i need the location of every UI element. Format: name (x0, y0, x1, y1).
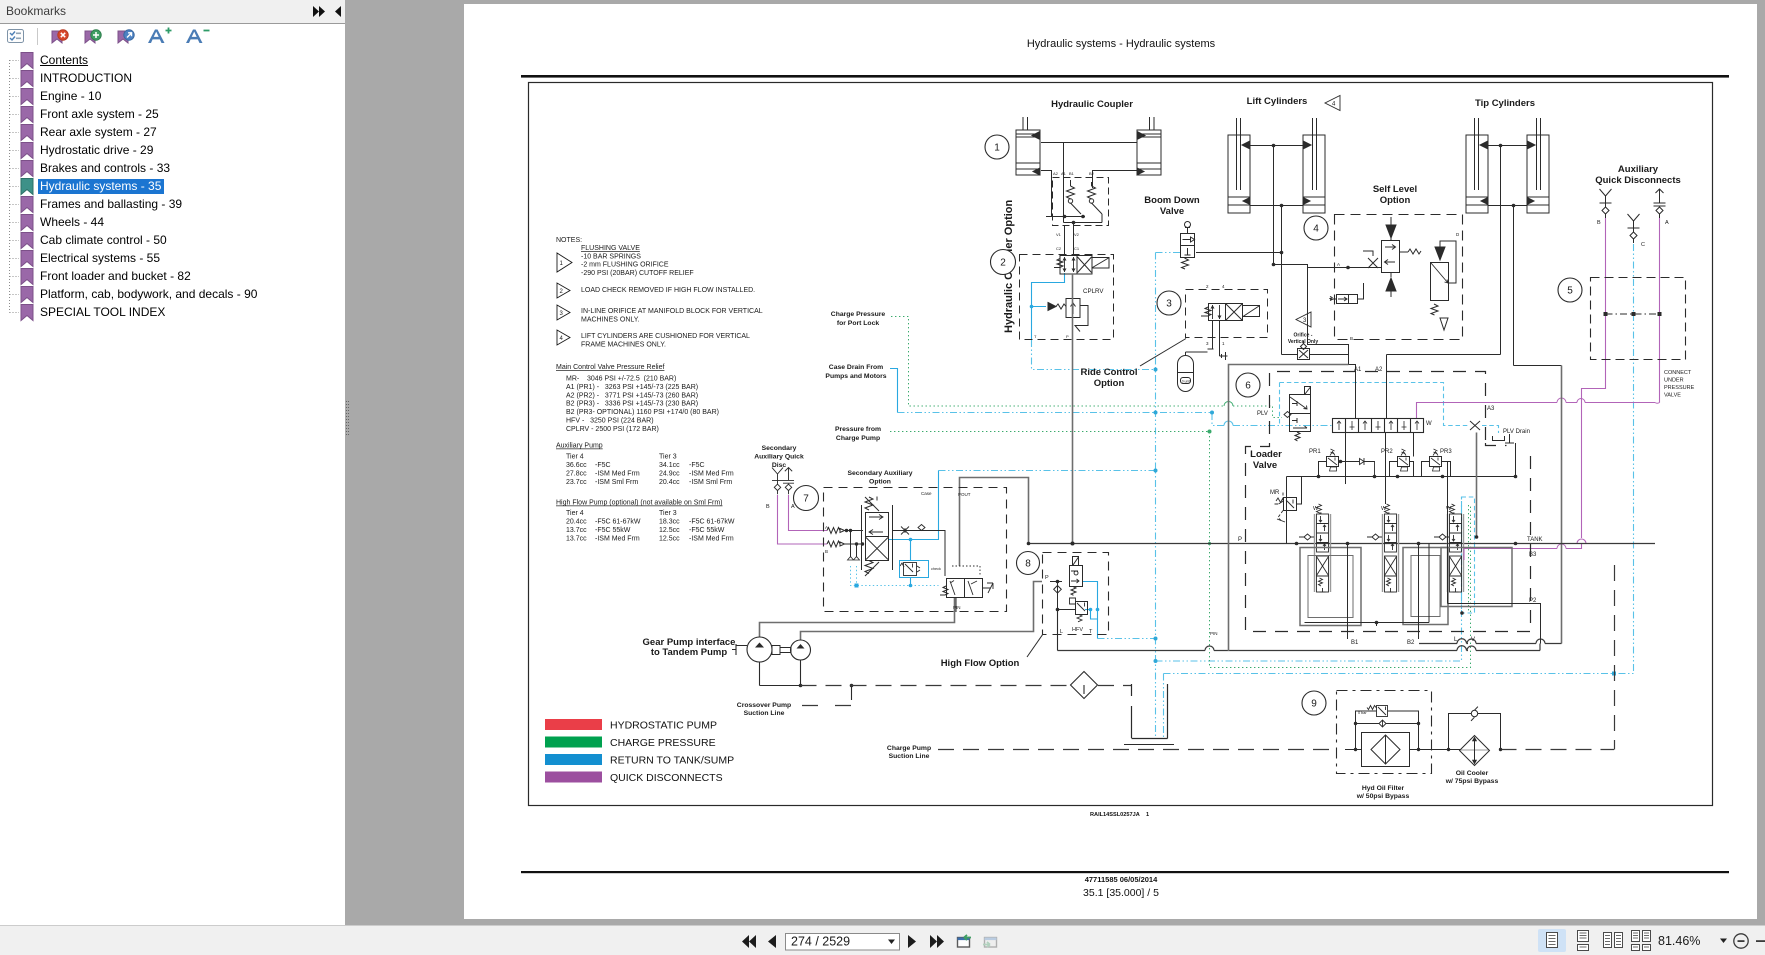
svg-text:C: C (1641, 242, 1645, 248)
aux QD symbol A (1654, 189, 1666, 218)
wire: coupler rails (1046, 217, 1102, 256)
svg-text:A1: A1 (1061, 171, 1067, 176)
self level valve right (1431, 241, 1457, 330)
svg-text:V1: V1 (1056, 232, 1062, 237)
svg-text:-ISM Med Frm: -ISM Med Frm (595, 470, 640, 477)
wire: spool3 pilot green (1468, 505, 1470, 613)
bookmarks panel (0, 0, 345, 925)
lift cylinder right (1303, 118, 1325, 213)
svg-text:Loader: Loader (1250, 449, 1282, 460)
svg-text:MR- 3046 PSI +/-72.5 (210: MR- 3046 PSI +/-72.5 (210 BAR) (566, 376, 676, 383)
svg-text:-F5C: -F5C (689, 462, 705, 469)
svg-text:Charge Pump: Charge Pump (887, 745, 931, 752)
svg-text:Suction Line: Suction Line (889, 753, 930, 760)
svg-text:Case Drain From: Case Drain From (829, 364, 883, 371)
orifice X on PLV drain (1470, 421, 1480, 430)
svg-text:-ISM Sml Frm: -ISM Sml Frm (595, 479, 638, 486)
wire: ride-control pilot dash-dot vertical (1155, 253, 1157, 740)
svg-text:Valve: Valve (1253, 460, 1277, 471)
svg-text:HYDROSTATIC PUMP: HYDROSTATIC PUMP (610, 720, 717, 732)
svg-text:P: P (1045, 575, 1049, 581)
note marker: orifice (3) (1296, 312, 1311, 327)
svg-text:B1: B1 (1069, 171, 1075, 176)
svg-text:w/ 75psi Bypass: w/ 75psi Bypass (1445, 778, 1499, 785)
tank symbol at PLV drain (1493, 434, 1515, 443)
legend swatch: hydrostatic pump (545, 719, 602, 730)
svg-text:VALVE: VALVE (1664, 393, 1681, 399)
svg-text:CPLRV: CPLRV (1083, 288, 1104, 295)
coupler solenoid valve (1054, 256, 1109, 275)
orifice X in self level (1363, 251, 1378, 268)
bottom toolbar (0, 925, 1765, 955)
svg-text:4: 4 (1313, 224, 1319, 235)
loader valve outer body (1229, 365, 1349, 652)
goto bookmark icon (118, 31, 128, 43)
PLV valve (1284, 387, 1311, 442)
check valve to PR1 (1343, 458, 1375, 477)
svg-text:B1: B1 (1351, 640, 1359, 646)
hyd oil filter body (1345, 733, 1419, 767)
outlet with orifice and check (893, 525, 946, 577)
wire: spool3 pilot dashed box (1462, 497, 1475, 613)
svg-text:POUT: POUT (958, 492, 971, 497)
svg-text:Option: Option (1380, 195, 1411, 206)
svg-text:CONNECT: CONNECT (1664, 370, 1692, 376)
svg-text:HFV: HFV (1072, 627, 1083, 633)
tank bracket (1124, 684, 1174, 745)
pointer line to ride control text (1140, 339, 1186, 367)
svg-text:3: 3 (1206, 341, 1209, 346)
svg-text:1: 1 (1146, 812, 1149, 818)
purple quick-disconnect lines (778, 218, 1660, 549)
case relief with blue frame (900, 563, 920, 576)
svg-text:Quick Disconnects: Quick Disconnects (1595, 175, 1681, 186)
svg-text:PR2: PR2 (1381, 449, 1393, 455)
wire: coupler check springs to rails (1071, 203, 1103, 223)
svg-text:-F5C 61-67kW: -F5C 61-67kW (595, 519, 641, 526)
svg-text:1: 1 (994, 143, 1000, 154)
svg-text:274 / 2529: 274 / 2529 (791, 935, 850, 949)
legend swatch: charge pressure (545, 737, 602, 748)
wire: lift cylinders head line (1250, 146, 1303, 265)
svg-text:RAIL14SSL0257JA: RAIL14SSL0257JA (1090, 812, 1140, 818)
pointer to high flow box (1027, 634, 1043, 657)
wire: pump1 to secondary aux PIN (760, 598, 955, 637)
relief valve PR3 (1422, 449, 1451, 477)
high flow solenoid valve (1070, 557, 1083, 596)
spool W labels (1313, 506, 1452, 512)
svg-text:PIN: PIN (1210, 631, 1218, 636)
svg-text:CPLRV - 2500 PSI (172 BAR): CPLRV - 2500 PSI (172 BAR) (566, 426, 659, 433)
svg-text:Auxiliary Pump: Auxiliary Pump (556, 443, 603, 450)
svg-text:0 bar: 0 bar (1358, 711, 1367, 715)
solid return (blue) segments (889, 273, 1098, 639)
wire: boom down valve pilot (1156, 252, 1181, 254)
svg-text:4: 4 (1222, 284, 1225, 289)
svg-text:QUICK DISCONNECTS: QUICK DISCONNECTS (610, 772, 723, 784)
A- icon (186, 30, 203, 44)
svg-text:Lift Cylinders: Lift Cylinders (1247, 96, 1308, 107)
coupler cylinder left (1016, 117, 1040, 175)
box 2: hydraulic coupler option enclosure (1020, 255, 1114, 340)
wire: secondary aux case (889, 471, 939, 540)
svg-text:Tip Cylinders: Tip Cylinders (1475, 98, 1535, 109)
svg-text:B2 (PR3- OPTIONAL) 1160 PSI +1: B2 (PR3- OPTIONAL) 1160 PSI +174/0 (80 B… (566, 409, 719, 416)
svg-text:FRAME MACHINES ONLY.: FRAME MACHINES ONLY. (581, 341, 666, 348)
schematic border frame (529, 83, 1713, 806)
svg-text:Auxiliary Quick: Auxiliary Quick (754, 454, 804, 461)
svg-text:LOAD CHECK REMOVED IF HIGH FLO: LOAD CHECK REMOVED IF HIGH FLOW INSTALLE… (581, 287, 755, 294)
svg-text:0 unit: 0 unit (1182, 380, 1190, 384)
box 5 dashed enclosure (1591, 278, 1686, 360)
variable displacement pump/motor stack (862, 497, 893, 577)
svg-text:RETURN TO TANK/SUMP: RETURN TO TANK/SUMP (610, 755, 734, 767)
svg-text:Orifice -: Orifice - (1294, 333, 1313, 339)
A+ icon (148, 30, 165, 44)
wire: lift to self level A (1274, 265, 1382, 419)
wire: case line dash-dot (939, 470, 1156, 472)
svg-text:T: T (1089, 629, 1093, 635)
svg-text:Tier 4: Tier 4 (566, 510, 584, 517)
wire: PLV pilot dashed (1280, 383, 1499, 434)
svg-text:5: 5 (1567, 286, 1573, 297)
svg-text:Suction Line: Suction Line (744, 710, 785, 717)
svg-text:B2: B2 (1089, 171, 1095, 176)
port restrictors (zigzag) (827, 528, 863, 561)
wire: P rail (1029, 543, 1656, 545)
svg-text:36.6cc: 36.6cc (566, 462, 587, 469)
svg-text:6: 6 (1245, 381, 1251, 392)
wire: charge pressure for port lock (891, 317, 1282, 418)
svg-text:Self Level: Self Level (1373, 184, 1417, 195)
wire: high flow valve tank (1082, 582, 1098, 639)
connect-under-pressure link (1606, 313, 1660, 315)
svg-text:Disc: Disc (772, 462, 787, 469)
svg-text:PIN: PIN (953, 605, 961, 610)
wire: secondary QD B (778, 495, 828, 544)
wire: boom valve to lift line (1196, 252, 1282, 254)
svg-text:-F5C 61-67kW: -F5C 61-67kW (689, 519, 735, 526)
wire: L drain to tank rail (1057, 610, 1059, 651)
swash control valve (940, 566, 993, 612)
svg-text:B: B (1597, 220, 1601, 226)
svg-text:24.9cc: 24.9cc (659, 470, 680, 477)
wire: tank drop legs (1163, 674, 1165, 739)
svg-text:34.1cc: 34.1cc (659, 462, 680, 469)
svg-text:C2: C2 (1056, 246, 1062, 251)
svg-text:PLV Drain: PLV Drain (1503, 429, 1530, 435)
svg-text:PR3: PR3 (1440, 449, 1452, 455)
svg-text:Option: Option (869, 479, 891, 486)
wire: case drain solid stub (890, 369, 898, 413)
svg-text:18.3cc: 18.3cc (659, 519, 680, 526)
wire: manifold feeds down to spools (1346, 433, 1477, 538)
footer rule (521, 871, 1729, 873)
filter bypass relief (1358, 706, 1388, 717)
svg-text:PR1: PR1 (1309, 449, 1321, 455)
svg-text:Charge Pump: Charge Pump (836, 435, 880, 442)
wire: case drain dash-dot (898, 413, 1333, 426)
svg-text:12.5cc: 12.5cc (659, 535, 680, 542)
wire: tank return upper (1419, 643, 1562, 645)
secondary QD symbol B (772, 468, 783, 495)
svg-text:A: A (791, 504, 795, 510)
svg-text:UNDER: UNDER (1664, 378, 1684, 384)
accumulator (1178, 356, 1194, 392)
green dotted charge-pressure lines (890, 317, 1471, 668)
wire: QD B to B3 (1582, 218, 1606, 549)
svg-text:20.4cc: 20.4cc (659, 479, 680, 486)
box 3: ride control enclosure (1186, 290, 1268, 338)
in-line orifice component (1298, 342, 1310, 360)
wire: accumulator link (1186, 352, 1208, 356)
svg-text:L: L (1060, 629, 1063, 635)
main gray canvas (345, 0, 1765, 925)
cyan dotted pilot lines, secondary aux (851, 566, 939, 586)
oil cooler with bypass (1449, 707, 1501, 766)
svg-text:20.4cc: 20.4cc (566, 519, 587, 526)
svg-text:Secondary: Secondary (762, 445, 797, 452)
numbered balloons (794, 135, 1583, 715)
wire: in-line orifice run (1282, 354, 1349, 356)
svg-text:8: 8 (1025, 559, 1031, 570)
wire: tip cylinders rod line (1488, 206, 1562, 366)
svg-text:2: 2 (1000, 258, 1006, 269)
wire: QD A to A3 (1417, 218, 1660, 418)
MR relief valve (1275, 477, 1302, 523)
svg-text:Case: Case (921, 491, 932, 496)
HFV relief (1058, 598, 1088, 622)
box 4: self level enclosure (1335, 215, 1463, 340)
svg-text:1: 1 (1222, 341, 1225, 346)
white PDF page (464, 4, 1757, 919)
svg-text:A: A (1337, 262, 1340, 267)
header rule (521, 75, 1729, 78)
svg-text:Option: Option (1094, 378, 1125, 389)
svg-text:47711585 06/05/2014: 47711585 06/05/2014 (1085, 875, 1158, 884)
coupler option spring box (dashed) (1053, 178, 1109, 226)
wire: tip cylinders head line (1387, 146, 1528, 419)
svg-text:T: T (1034, 334, 1037, 339)
svg-text:A1 (PR1) - 3263 PSI +145/-73: A1 (PR1) - 3263 PSI +145/-73 (225 BAR) (566, 384, 698, 391)
self level valve left (1382, 217, 1400, 297)
svg-text:Boom Down: Boom Down (1144, 195, 1200, 206)
svg-text:23.7cc: 23.7cc (566, 479, 587, 486)
tip cylinder left (1466, 118, 1488, 213)
svg-text:P: P (1238, 537, 1242, 543)
wire: loader valve right feed (1561, 366, 1563, 644)
svg-text:3: 3 (1303, 318, 1307, 324)
svg-text:-F5C 55kW: -F5C 55kW (689, 527, 725, 534)
svg-text:2: 2 (1206, 284, 1209, 289)
svg-text:12.5cc: 12.5cc (659, 527, 680, 534)
wire: pump2 to high flow P (801, 582, 1043, 641)
loader spool 2 (1383, 504, 1399, 592)
wire: bypass loop (1356, 711, 1419, 750)
svg-text:CHARGE PRESSURE: CHARGE PRESSURE (610, 737, 716, 749)
delete bookmark icon (52, 31, 62, 43)
svg-text:3: 3 (1166, 299, 1172, 310)
wire: CPLRV spring drain (1032, 273, 1065, 340)
wire: tank return lower (1058, 644, 1541, 651)
wire: secondary QD A (789, 495, 828, 531)
svg-text:FLUSHING VALVE: FLUSHING VALVE (581, 245, 640, 252)
svg-text:MR: MR (1270, 490, 1280, 496)
secondary QD symbol A (783, 468, 794, 495)
svg-text:-ISM Med Frm: -ISM Med Frm (689, 535, 734, 542)
svg-text:D: D (1456, 232, 1460, 237)
svg-text:Hydraulic systems - Hydraulic: Hydraulic systems - Hydraulic systems (1027, 38, 1216, 50)
svg-text:-F5C 55kW: -F5C 55kW (595, 527, 631, 534)
svg-text:27.8cc: 27.8cc (566, 470, 587, 477)
svg-text:13.7cc: 13.7cc (566, 527, 587, 534)
svg-text:TANK: TANK (1527, 537, 1543, 543)
svg-text:81.46%: 81.46% (1658, 934, 1700, 948)
svg-text:-290 PSI (20BAR) CUTOFF RELIEF: -290 PSI (20BAR) CUTOFF RELIEF (581, 270, 694, 277)
svg-text:-2 mm FLUSHING ORIFICE: -2 mm FLUSHING ORIFICE (581, 262, 669, 269)
aux QD symbol C (1628, 214, 1640, 243)
purple B3 into spool3 (1463, 549, 1465, 561)
cyan junction dots (1154, 368, 1617, 676)
legend swatch: return to tank/sump (545, 754, 602, 765)
PR relief valves row (1319, 449, 1451, 477)
svg-text:W: W (1426, 421, 1432, 427)
new bookmark icon (85, 31, 95, 43)
svg-text:Pumps and Motors: Pumps and Motors (825, 373, 886, 380)
boom down valve (1181, 222, 1195, 270)
wire: valve work ports down (1208, 321, 1228, 361)
wire: return rail to L port (1156, 497, 1462, 661)
note marker triangle 1 (557, 253, 572, 345)
coupler check valve springs (1067, 180, 1096, 203)
svg-text:Crossover Pump: Crossover Pump (737, 702, 791, 709)
svg-text:7: 7 (803, 494, 809, 505)
svg-text:High Flow Option: High Flow Option (941, 658, 1020, 669)
wire: POUT riser (960, 478, 1029, 567)
svg-text:check: check (931, 567, 941, 571)
svg-text:4: 4 (1332, 102, 1336, 108)
lift cylinder left (1228, 118, 1250, 213)
tip cylinder right (1527, 118, 1549, 213)
svg-text:Ride Control: Ride Control (1081, 367, 1138, 378)
svg-text:w/ 50psi Bypass: w/ 50psi Bypass (1356, 793, 1410, 800)
svg-text:HFV - 3250 PSI (224 BAR): HFV - 3250 PSI (224 BAR) (566, 418, 654, 425)
svg-text:PRESSURE: PRESSURE (1664, 385, 1695, 391)
pilot valve small, self level (1330, 283, 1364, 304)
svg-text:MACHINES ONLY.: MACHINES ONLY. (581, 316, 640, 323)
wire: coupler cylinder rod ports (1041, 171, 1137, 217)
wire: aux QD C return rail (1164, 243, 1634, 674)
svg-text:-10 BAR SPRINGS: -10 BAR SPRINGS (581, 253, 641, 260)
spool inlet check valves (1299, 534, 1449, 540)
svg-text:Hydraulic Coupler: Hydraulic Coupler (1051, 99, 1133, 110)
svg-text:P: P (1066, 334, 1069, 339)
loader spool 1 (1315, 504, 1331, 592)
loader spool 3 (1448, 504, 1464, 592)
wire: pilot rail y476 (1287, 477, 1516, 544)
svg-text:PLV: PLV (1257, 411, 1268, 417)
svg-text:A3: A3 (1487, 406, 1495, 412)
svg-text:B2: B2 (1407, 640, 1415, 646)
svg-text:Charge Pressure: Charge Pressure (831, 311, 886, 318)
CPLRV relief valve (1048, 299, 1088, 332)
svg-text:-ISM Med Frm: -ISM Med Frm (689, 470, 734, 477)
svg-text:A2 (PR2) - 3771 PSI +145/-73: A2 (PR2) - 3771 PSI +145/-73 (260 BAR) (566, 392, 698, 399)
wire: coupler cylinders top manifold (1041, 143, 1137, 217)
charge pump suction dash line (938, 565, 1615, 750)
legend swatch: quick disconnects (545, 772, 602, 783)
secondary aux QD labels (737, 311, 1499, 800)
svg-text:Valve: Valve (1160, 206, 1184, 217)
svg-text:Secondary Auxiliary: Secondary Auxiliary (847, 470, 912, 477)
wire: PLV pilot box drop (1279, 383, 1281, 425)
svg-text:Tier 3: Tier 3 (659, 454, 677, 461)
svg-text:NOTES:: NOTES: (556, 237, 582, 244)
svg-text:Auxiliary: Auxiliary (1618, 164, 1659, 175)
relief valve PR2 (1390, 449, 1414, 477)
svg-text:35.1 [35.000] / 5: 35.1 [35.000] / 5 (1083, 887, 1159, 899)
svg-text:IN-LINE ORIFICE AT MANIFOLD BL: IN-LINE ORIFICE AT MANIFOLD BLOCK FOR VE… (581, 308, 763, 315)
svg-text:Tier 4: Tier 4 (566, 454, 584, 461)
enclosure (824, 488, 1007, 612)
ride control valve (1186, 304, 1260, 361)
note marker: lift cylinders (4) (1325, 96, 1340, 111)
load check in box 8 (1050, 582, 1062, 610)
svg-text:Main Control Valve Pressure Re: Main Control Valve Pressure Relief (556, 364, 664, 371)
svg-text:-ISM Med Frm: -ISM Med Frm (595, 535, 640, 542)
svg-text:B2 (PR3) - 3336 PSI +145/-73: B2 (PR3) - 3336 PSI +145/-73 (230 BAR) (566, 401, 698, 408)
junction dots upper (1063, 144, 1516, 270)
spring between self level valves (1400, 249, 1421, 254)
wire: filter to cooler (1419, 749, 1461, 751)
svg-text:High Flow Pump (optional) (not: High Flow Pump (optional) (not available… (556, 500, 723, 507)
inline filter diamond (1071, 672, 1098, 699)
coupler cylinder right (1137, 117, 1161, 175)
svg-text:Tier 3: Tier 3 (659, 510, 677, 517)
svg-text:-ISM Sml Frm: -ISM Sml Frm (689, 479, 732, 486)
outer body boxes of loader sections (1300, 548, 1512, 626)
svg-text:13.7cc: 13.7cc (566, 535, 587, 542)
svg-text:1: 1 (560, 261, 564, 267)
manifold spool row (1333, 419, 1424, 433)
wire: spool work ports (1305, 477, 1541, 644)
svg-text:9: 9 (1311, 699, 1317, 710)
svg-text:C1: C1 (1074, 246, 1080, 251)
svg-text:V: V (1471, 637, 1475, 643)
svg-text:LIFT CYLINDERS ARE CUSHIONED F: LIFT CYLINDERS ARE CUSHIONED FOR VERTICA… (581, 333, 750, 340)
svg-text:to Tandem Pump: to Tandem Pump (651, 647, 728, 658)
wire: HFV tank dash-dot (1098, 638, 1156, 640)
svg-text:B: B (825, 549, 828, 554)
svg-text:B: B (1350, 336, 1353, 341)
relief valve PR1 (1319, 449, 1343, 477)
svg-text:Hyd Oil Filter: Hyd Oil Filter (1362, 785, 1405, 792)
wire: main pressure from CPLRV down (1072, 274, 1074, 544)
box 6: loader valve enclosure (long dash) (1246, 372, 1531, 632)
svg-text:A: A (1665, 220, 1669, 226)
svg-text:A2: A2 (1053, 171, 1059, 176)
svg-text:B: B (766, 504, 770, 510)
options (checklist) icon (8, 30, 24, 43)
aux QD symbol B (1600, 189, 1612, 218)
filter bypass check (1379, 720, 1386, 727)
svg-text:Oil Cooler: Oil Cooler (1456, 770, 1489, 777)
wire: suction drops (760, 660, 801, 686)
svg-text:-F5C: -F5C (595, 462, 611, 469)
svg-text:Pressure from: Pressure from (835, 426, 881, 433)
wire: CPLRV tank dash-dot (1032, 340, 1156, 370)
wire: lift cylinders rod line (1250, 206, 1303, 355)
